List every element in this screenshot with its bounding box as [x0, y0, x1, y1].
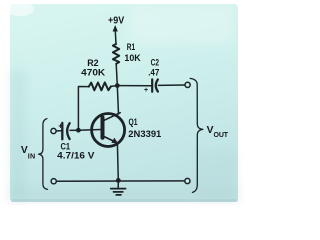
wire collector node down to transistor collector [117, 86, 118, 114]
output top terminal [185, 82, 190, 87]
wire emitter down to ground rail [116, 144, 119, 181]
power +9V arrow [113, 26, 117, 44]
svg-text:.47: .47 [148, 67, 159, 77]
svg-text:10K: 10K [124, 53, 141, 63]
transistor Q1 circle [92, 114, 125, 147]
transistor Q1 base bar [101, 118, 105, 138]
input bottom terminal [51, 179, 56, 184]
resistor R1 zigzag [113, 44, 119, 64]
wire R2 corner: horizontal from corner to R2 zigzag [78, 87, 88, 131]
input top terminal [51, 128, 56, 133]
capacitor C1 plates [62, 123, 69, 139]
wire R2 to collector node [111, 85, 117, 88]
wire collector node to capacitor C2 [117, 85, 151, 87]
svg-text:C2: C2 [151, 57, 159, 67]
svg-text:+: + [144, 87, 148, 94]
blue schematic panel background [10, 4, 238, 202]
wire input terminal to capacitor C1 [56, 130, 61, 132]
svg-text:+9V: +9V [108, 15, 125, 26]
node emitter-rail junction dot [116, 178, 121, 183]
svg-text:Q1: Q1 [129, 117, 138, 127]
output bottom terminal [185, 178, 190, 183]
svg-text:4.7/16 V: 4.7/16 V [57, 151, 95, 161]
node collector junction dot [115, 83, 120, 88]
wire R1 bottom to collector node [116, 64, 117, 86]
wire C2 to output top terminal [158, 84, 184, 86]
transistor Q1 collector lead [104, 113, 120, 121]
wire bottom rail [57, 180, 185, 182]
wire from +9V arrow to R1 top [114, 31, 117, 44]
brace for VOUT port [190, 78, 203, 192]
wire C1 to base node [70, 129, 78, 131]
node base junction dot [76, 128, 81, 133]
svg-text:2N3391: 2N3391 [128, 129, 161, 139]
svg-text:470K: 470K [81, 67, 106, 77]
ground [111, 180, 126, 195]
svg-text:R1: R1 [127, 42, 135, 52]
svg-text:+: + [58, 121, 63, 130]
resistor R2 zigzag [89, 82, 111, 90]
brace for VIN port [39, 119, 48, 190]
svg-text:R2: R2 [87, 58, 98, 68]
capacitor C2 plates [152, 79, 158, 91]
transistor Q1 emitter lead with arrow [104, 137, 117, 144]
wire base node to transistor base [78, 129, 100, 132]
